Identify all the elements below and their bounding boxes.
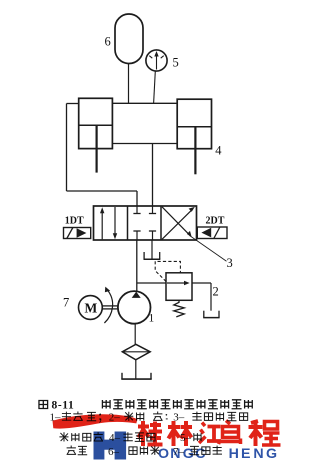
svg-text:5: 5 — [173, 56, 179, 70]
svg-text:8-11: 8-11 — [52, 400, 75, 412]
svg-text:1: 1 — [149, 313, 155, 325]
svg-text:6: 6 — [105, 35, 111, 49]
svg-text:3: 3 — [227, 256, 233, 270]
svg-text:1DT: 1DT — [65, 215, 84, 226]
svg-text:4: 4 — [215, 144, 222, 158]
svg-text:M: M — [85, 300, 98, 315]
svg-text:2DT: 2DT — [206, 215, 225, 226]
svg-text:7: 7 — [63, 296, 69, 310]
svg-text:2: 2 — [213, 285, 219, 299]
